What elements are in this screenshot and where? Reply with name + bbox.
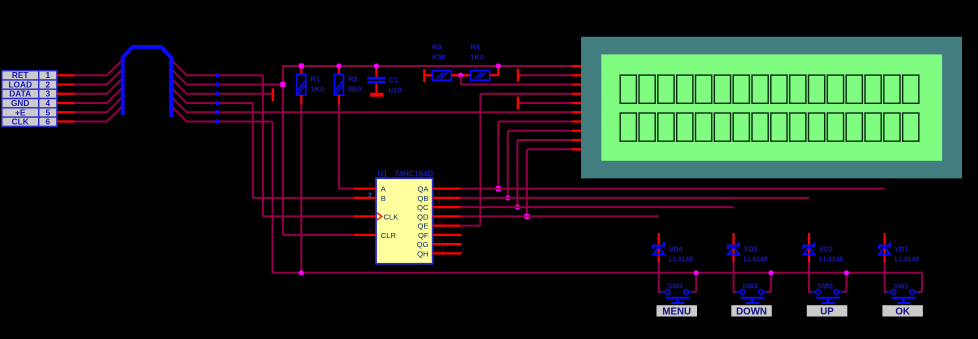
svg-text:0E0: 0E0: [348, 85, 361, 94]
connector J1 table: [2, 70, 57, 127]
VD1 label: [895, 246, 919, 263]
wire CLK to cable: [74, 106, 123, 122]
LCD pin 10 stub: [572, 148, 582, 150]
svg-text:QF: QF: [418, 231, 429, 240]
terminal bar on DATA row3: [272, 88, 275, 101]
svg-text:LL4148: LL4148: [895, 256, 919, 263]
svg-text:R1: R1: [311, 75, 321, 84]
wire QC to LCD pin9: [517, 140, 581, 207]
capacitor C1: [367, 66, 385, 97]
junction LOAD row2 to vertical: [280, 82, 285, 87]
wire VCC vertical rail to CLR: [283, 66, 355, 235]
svg-text:u10: u10: [389, 86, 402, 95]
junction C1 top: [374, 63, 379, 68]
button label UP: [807, 305, 848, 317]
svg-text:74HC164D: 74HC164D: [395, 170, 434, 179]
svg-text:QB: QB: [418, 194, 429, 203]
U1 right pin stub QH: [433, 252, 462, 254]
wire QB to button column: [460, 197, 809, 199]
svg-text:SW3: SW3: [742, 284, 757, 291]
wire row 1 from cable: [171, 60, 263, 76]
cable bundle (blue arc): [123, 47, 171, 117]
U1 left pin stub 5: [354, 234, 376, 236]
wire RET to cable: [74, 60, 123, 76]
wire DATA to cable: [74, 78, 123, 94]
U1 left pin stub 0: [354, 188, 376, 190]
R2 label: [348, 75, 361, 94]
U1 right pin stub QF: [433, 234, 462, 236]
svg-text:VD1: VD1: [895, 246, 909, 253]
svg-text:LL4148: LL4148: [669, 256, 693, 263]
button label OK: [882, 305, 923, 317]
wire QC to button column: [460, 206, 733, 208]
terminal for R3: [423, 69, 432, 82]
SW1 label: [894, 284, 909, 291]
cable tap dot row 6: [215, 119, 220, 124]
U1 left pin names: [381, 185, 398, 240]
U1 faint pin numbers right: [437, 182, 444, 253]
svg-text:LL4148: LL4148: [744, 256, 768, 263]
junction R1 top: [299, 63, 304, 68]
svg-text:6: 6: [45, 117, 50, 127]
svg-text:SW4: SW4: [668, 284, 683, 291]
wire R2 bottom to pin A: [339, 104, 355, 189]
op IC U1 74HC164D body: [376, 178, 433, 264]
wire R3-R4 junction down to LCD pin3: [461, 75, 582, 84]
svg-text:OK: OK: [895, 306, 910, 317]
wire RET row1 down to pin CLK: [263, 75, 355, 216]
junction R3-R4 to LCD pin3: [458, 73, 463, 78]
wire +E row5 to LCD pin6: [0, 0, 1, 1]
wire R3-R4 link: [451, 74, 470, 76]
wire R1 bottom to bus: [300, 104, 302, 273]
VCC top rail to LCD pin1: [282, 65, 582, 67]
cable tap dot row 5: [215, 110, 220, 115]
U1 pin number 2: [368, 190, 372, 199]
svg-text:R3: R3: [432, 43, 442, 52]
resistor R4: [471, 71, 490, 81]
LCD pin 7 stub: [572, 120, 582, 122]
junction R4 on rail: [496, 63, 501, 68]
svg-text:VD2: VD2: [819, 246, 833, 253]
U1 right pin names: [417, 185, 430, 259]
U1 title: [378, 170, 434, 179]
resistor R3: [432, 71, 451, 81]
SW4 label: [668, 284, 683, 291]
svg-text:QC: QC: [417, 203, 429, 212]
U1 right pin stub QB: [433, 197, 461, 199]
svg-text:R4: R4: [470, 43, 480, 52]
resistor R2: [335, 66, 344, 105]
wire GND row4 down to pin B: [253, 103, 355, 198]
LCD pin 6 stub: [572, 111, 582, 113]
bottom bus wire RET line: [272, 272, 923, 273]
switch SW3: [733, 262, 772, 304]
junction QA: [496, 186, 501, 191]
U1 left pin stub 1: [354, 197, 376, 199]
R4 label: [470, 43, 484, 62]
diode VD4: [652, 233, 665, 263]
svg-text:13: 13: [437, 247, 444, 253]
cable tap dot row 4: [215, 101, 220, 106]
svg-text:QD: QD: [417, 212, 429, 221]
VD2 label: [819, 246, 843, 263]
svg-text:QG: QG: [417, 240, 429, 249]
wire QA to button column: [460, 188, 884, 190]
wire row 2 from cable: [171, 69, 283, 85]
svg-text:VD4: VD4: [669, 246, 683, 253]
wire +E to cable: [74, 97, 123, 113]
LCD pin2 terminal and wire: [517, 69, 573, 82]
connector pin 5 stub: [57, 111, 75, 113]
svg-text:K30: K30: [432, 53, 446, 62]
switch SW2: [808, 262, 847, 304]
U1 right pin stub QC: [433, 206, 461, 208]
svg-text:12: 12: [437, 238, 444, 244]
wire LOAD to cable: [74, 69, 123, 85]
svg-text:MENU: MENU: [662, 306, 691, 317]
diode VD1: [878, 233, 891, 263]
svg-text:DOWN: DOWN: [736, 306, 767, 317]
junction R1 on bus: [299, 270, 304, 275]
wire CLK row6 down to bottom bus: [272, 122, 274, 273]
SW2 label: [818, 284, 833, 291]
VD4 label: [669, 246, 693, 263]
svg-text:QA: QA: [418, 185, 430, 194]
LCD pin 2 stub: [572, 74, 582, 76]
junction R2 top: [336, 63, 341, 68]
R1 label: [311, 75, 325, 94]
connector pin 4 stub: [57, 102, 75, 104]
svg-text:U1: U1: [378, 170, 389, 179]
wire row 3 from cable: [171, 78, 271, 94]
svg-text:C1: C1: [389, 76, 399, 85]
cable tap dot row 1: [215, 73, 220, 78]
svg-text:R2: R2: [348, 75, 358, 84]
switch SW1: [884, 262, 923, 304]
svg-text:B: B: [381, 194, 386, 203]
connector pin 1 stub: [57, 74, 75, 76]
wire QE to LCD pin4: [461, 94, 582, 226]
diode VD2: [802, 233, 815, 263]
junction QC: [515, 205, 520, 210]
svg-text:1K0: 1K0: [470, 53, 484, 62]
R3 label: [432, 43, 446, 62]
svg-text:QH: QH: [417, 249, 428, 258]
svg-text:1K0: 1K0: [311, 85, 325, 94]
U1 right pin stub QE: [433, 225, 461, 227]
switch SW4: [658, 262, 697, 304]
wire GND to cable: [74, 88, 123, 104]
LCD pin 1 stub: [572, 65, 582, 67]
LCD pin5 terminal and wire: [517, 97, 573, 110]
wire row 5 from cable: [171, 97, 581, 113]
connector pin 2 stub: [57, 83, 75, 85]
LCD pin 8 stub: [572, 130, 582, 132]
diode VD3: [727, 233, 740, 263]
svg-text:11: 11: [437, 229, 444, 235]
U1 right pin stub QG: [433, 243, 462, 245]
SW3 label: [742, 284, 757, 291]
wire row 4 from cable: [171, 88, 253, 104]
junction switch SW2 on bus: [844, 270, 849, 275]
U1 right pin stub QD: [433, 215, 461, 217]
wire QD to LCD pin10: [527, 149, 582, 216]
resistor R1: [297, 66, 306, 105]
svg-text:CLK: CLK: [384, 212, 399, 221]
wire QD to button column: [460, 215, 658, 217]
svg-text:CLK: CLK: [12, 117, 29, 127]
C1 label: [389, 76, 402, 95]
button label MENU: [657, 305, 698, 317]
wire R4 right up to rail: [490, 67, 499, 76]
U1 clock wedge: [377, 213, 382, 220]
U1 left pin stub 3: [354, 215, 376, 217]
LCD pin 3 stub: [572, 83, 582, 85]
LCD pin 5 stub: [572, 102, 582, 104]
VD3 label: [744, 246, 768, 263]
junction switch SW3 on bus: [768, 270, 773, 275]
connector pin 6 stub: [57, 120, 75, 122]
button label DOWN: [731, 305, 772, 317]
svg-text:2: 2: [368, 190, 372, 199]
cable tap dot row 3: [215, 91, 220, 96]
svg-text:CLR: CLR: [381, 231, 397, 240]
wire QA to LCD pin7: [498, 122, 581, 189]
junction QD: [524, 214, 529, 219]
wire QB to LCD pin8: [508, 131, 582, 198]
cable tap dot row 2: [215, 82, 220, 87]
connector pin 3 stub: [57, 93, 75, 95]
LCD pin 9 stub: [572, 139, 582, 141]
svg-text:10: 10: [437, 219, 444, 225]
svg-text:QE: QE: [418, 222, 429, 231]
junction switch SW4 on bus: [694, 270, 699, 275]
svg-text:SW1: SW1: [894, 284, 909, 291]
LCD module LCD1: [581, 37, 962, 179]
U1 right pin stub QA: [433, 188, 461, 190]
svg-text:SW2: SW2: [818, 284, 833, 291]
LCD pin 4 stub: [572, 93, 582, 95]
wire row 6 from cable: [171, 106, 272, 122]
svg-text:LL4148: LL4148: [819, 256, 843, 263]
svg-text:VD3: VD3: [744, 246, 758, 253]
junction QB: [505, 195, 510, 200]
U1 faint pin numbers left: [369, 182, 373, 234]
svg-text:UP: UP: [820, 306, 834, 317]
